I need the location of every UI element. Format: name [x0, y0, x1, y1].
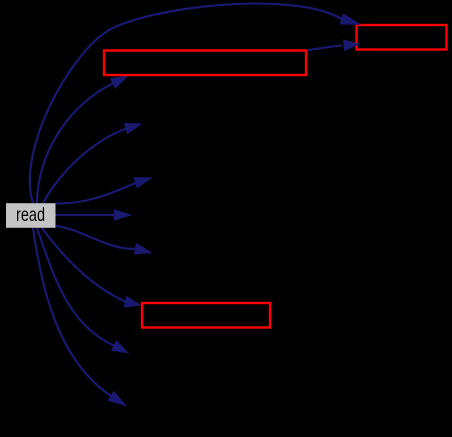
edge read->node7 (rect3) [42, 228, 140, 307]
node 7 (red box, middle) [142, 303, 270, 328]
edge read->node9 [33, 228, 126, 406]
edge read->node2 (rect2) [37, 76, 128, 203]
edge read->node5 (horizontal) [56, 210, 131, 220]
edge read->node6 [56, 226, 151, 254]
node 2 (red box, upper middle) [104, 51, 306, 76]
edge read->node3 [43, 124, 141, 203]
edge node2->gzclose [306, 40, 359, 51]
edge read->node4 [56, 178, 152, 204]
edge read->node8 [37, 228, 128, 353]
edge read->gzclose (top arc) [30, 4, 360, 203]
node gzclose (red box, top right) [357, 25, 447, 50]
node read (current node, grey) [6, 203, 56, 228]
svg-text:read: read [16, 204, 45, 226]
